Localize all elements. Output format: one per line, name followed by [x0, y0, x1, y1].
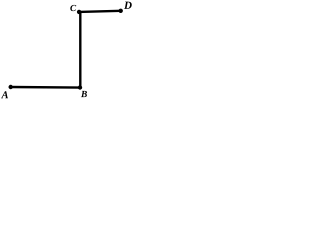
label D: [124, 2, 132, 9]
node B dot: [78, 85, 82, 89]
node A dot: [9, 85, 13, 89]
wire segment BC: [79, 12, 81, 88]
wire segment CD: [79, 11, 120, 12]
wire segment AB: [11, 86, 81, 89]
label B: [81, 91, 87, 97]
node C dot: [77, 10, 81, 14]
node D dot: [119, 9, 123, 13]
label C: [70, 5, 76, 11]
label A: [1, 91, 8, 98]
